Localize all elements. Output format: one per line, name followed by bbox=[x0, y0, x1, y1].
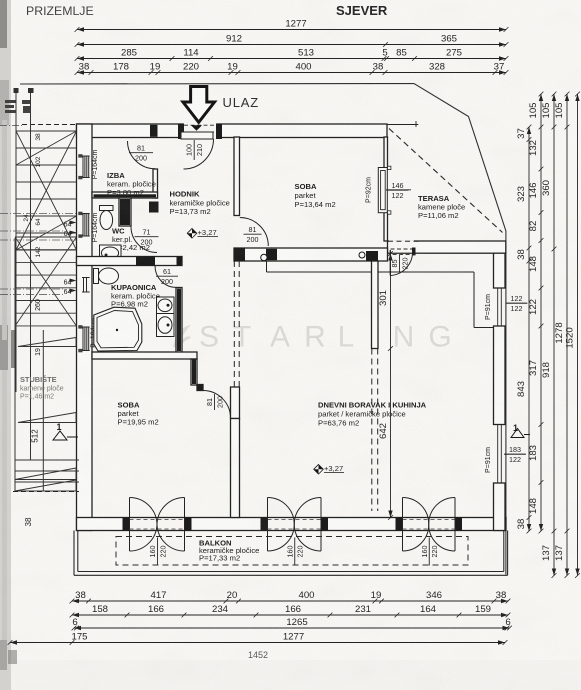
door label terasa door size 85/220 bbox=[390, 255, 409, 272]
stair diagonals middle bbox=[15, 237, 77, 326]
wall fill corridor west wall fill bbox=[192, 360, 196, 385]
wall north outer wall bbox=[77, 124, 388, 138]
door swing door corridor-soba 81/200 bbox=[203, 391, 231, 419]
stair treads upper flight bbox=[16, 131, 77, 250]
door swing izba door 81/200 bbox=[128, 141, 156, 169]
dimension chain top row 38.. bbox=[75, 70, 509, 75]
wall wall soba-living room bbox=[234, 248, 388, 261]
door/window label window size 146/122 bbox=[387, 181, 409, 200]
dimension chain right col D bbox=[565, 92, 570, 578]
door swing kupaonica door 61/200 bbox=[155, 266, 177, 288]
dimension chain right col B bbox=[539, 92, 544, 534]
leader line 64b bbox=[0, 288, 64, 290]
door/window label wc door size 71/200 bbox=[135, 228, 159, 247]
stair flight arrow 1 bbox=[18, 338, 76, 347]
dimension chain right col A bbox=[527, 125, 532, 534]
balcony door opening 1 bbox=[130, 519, 185, 530]
dashed hodnik-living right bbox=[238, 261, 240, 387]
door label door size 81/200 south soba bbox=[205, 394, 224, 410]
door label entrance door size 100/210 bbox=[185, 140, 204, 160]
wall kupaonica south wall bbox=[92, 352, 197, 359]
wall wc east wall bbox=[119, 198, 131, 226]
door/window label door size 81/200 soba bbox=[244, 225, 262, 244]
ULAZ arrow bbox=[183, 87, 215, 123]
dash-dot line top-left bbox=[0, 125, 22, 127]
wall fill corridor step fill bbox=[198, 385, 203, 390]
door label balcony door size 1 160/220 bbox=[148, 538, 167, 566]
wall kupaonica east wall bbox=[176, 288, 182, 353]
balcony outer edge bbox=[74, 531, 508, 576]
dimension chain top row 1277 bbox=[75, 27, 509, 32]
elevation mark +3,27 living bbox=[314, 464, 344, 474]
window label leader bbox=[386, 189, 411, 191]
door swing wc door 71/200 bbox=[131, 226, 157, 253]
door swing terasa door 85/220 bbox=[390, 251, 412, 276]
interior line step bbox=[266, 261, 268, 272]
stair diagonals upper bbox=[16, 131, 77, 250]
stair flight arrow 2 bbox=[18, 413, 76, 423]
eave tick bbox=[415, 121, 417, 127]
terasa door dashed sill box bbox=[391, 249, 414, 255]
elevation mark +3,27 hodnik bbox=[187, 228, 218, 238]
dashed hodnik-living left bbox=[233, 261, 235, 387]
balcony door opening 2 bbox=[268, 519, 322, 530]
wall fill wall stub below izba corner bbox=[149, 202, 159, 213]
kupaonica sink 1 bbox=[157, 297, 175, 314]
dimension chain bottom row 2 bbox=[70, 613, 511, 618]
wc toilet bbox=[100, 206, 114, 230]
dimension chain bottom row 4 bbox=[8, 640, 508, 645]
margin scan marks bbox=[5, 100, 31, 113]
terasa door dashed head bbox=[388, 240, 420, 242]
balcony dashed boundary bbox=[116, 537, 468, 566]
wall west outer wall bbox=[77, 124, 93, 531]
wall fill kupaonica north wall fill 2 bbox=[177, 257, 183, 266]
entrance swing direction triangle bbox=[191, 125, 202, 131]
section marker 1 right bbox=[511, 423, 530, 438]
wall fill wall fill east end bbox=[366, 251, 378, 261]
window east wall 122/122 bbox=[495, 288, 506, 326]
vent window left wall 64/64 bbox=[79, 278, 91, 293]
leader line window top bbox=[0, 213, 76, 215]
entrance opening bbox=[184, 123, 217, 138]
stair flight arrow 4 bbox=[15, 480, 76, 491]
wall soba east wall lower bbox=[384, 212, 388, 241]
wall fill wall band fill mid bbox=[266, 249, 277, 260]
north wall line extension bbox=[387, 124, 418, 126]
wall east wall above window 122 bbox=[494, 253, 506, 288]
window 183 leader bbox=[504, 453, 526, 455]
wall kupaonica north wall bbox=[77, 257, 183, 266]
wall fill wall fill west end bbox=[234, 248, 245, 261]
interior bay line horizontal bbox=[474, 327, 494, 329]
tick arrows 64 dims bbox=[70, 221, 77, 293]
door label balcony door size 2 160/220 bbox=[285, 538, 304, 566]
interior ceiling line bbox=[267, 271, 475, 273]
dimension chain right col C bbox=[552, 92, 557, 578]
door/window label kupaonica door size 61/200 bbox=[156, 267, 178, 286]
balcony door 2 swing arcs 160/220 bbox=[268, 498, 322, 552]
kupaonica bathtub bbox=[94, 307, 142, 351]
stair enclosure walls bbox=[15, 88, 43, 491]
wall terasa south wall bbox=[388, 241, 506, 253]
door/window label izba door size 81/200 bbox=[129, 144, 153, 163]
window east wall 183/122 bbox=[495, 425, 506, 484]
stair dash-dot line bbox=[0, 294, 64, 296]
dashed beam left bbox=[371, 349, 373, 512]
balcony door 1 swing arcs 160/220 bbox=[130, 498, 185, 552]
wall fill wc east wall fill bbox=[120, 199, 130, 225]
wall fill terasa door jamb bbox=[412, 248, 416, 256]
dashed beam right bbox=[377, 349, 379, 512]
wall corridor west wall bbox=[191, 359, 197, 385]
stair flight arrow 3 bbox=[15, 468, 76, 480]
roof overhang outline bbox=[20, 84, 506, 575]
kupaonica sink 2 bbox=[157, 314, 175, 337]
living NE inner face bbox=[493, 253, 495, 288]
interior bay line vertical bbox=[473, 272, 475, 328]
wall wall piece below door bbox=[231, 387, 240, 419]
window 122 leader bbox=[506, 302, 528, 304]
left scan margin band bbox=[0, 0, 11, 690]
wall fill north wall fill above izba door bbox=[150, 125, 158, 137]
terasa dashed boundary diagonal bbox=[389, 129, 503, 233]
dimension chain bottom row 1 bbox=[70, 599, 511, 604]
door swing door hodnik-soba 81/200 bbox=[240, 218, 268, 247]
section marker 1 left bbox=[53, 422, 78, 440]
wall fill entrance jamb right bbox=[216, 124, 222, 140]
wall south outer wall bbox=[77, 518, 507, 531]
wall fill entrance jamb left bbox=[178, 124, 184, 140]
stair treads lower flight bbox=[15, 460, 79, 482]
wall east wall below window 183 bbox=[494, 483, 506, 531]
dashed wall continuation top-left bbox=[22, 124, 79, 126]
balcony door 3 swing arcs 160/220 bbox=[403, 497, 456, 551]
kupaonica door opening bbox=[155, 258, 177, 265]
window left wall wc bbox=[78, 214, 92, 237]
terasa door opening bbox=[389, 240, 414, 252]
column marker circle 1 bbox=[261, 254, 267, 260]
wall soba east wall upper bbox=[384, 137, 388, 168]
wall east wall between windows bbox=[494, 326, 506, 425]
dimension chain top row 912/365 bbox=[75, 42, 509, 47]
door swing entrance door 100/210 bbox=[184, 139, 214, 169]
stair dashed landing line bbox=[13, 491, 79, 493]
entrance threshold dashed inner bbox=[184, 131, 216, 133]
window left wall izba bbox=[78, 156, 92, 178]
wall fill izba south wall fill bbox=[94, 194, 157, 197]
wall column stub wall bbox=[372, 261, 379, 349]
wall wall hodnik-soba bbox=[234, 137, 240, 216]
wall izba east wall below door bbox=[153, 169, 158, 198]
door label balcony door size 3 160/220 bbox=[420, 538, 439, 566]
wall wall soba-living south bbox=[231, 419, 240, 518]
kupaonica toilet bbox=[94, 268, 119, 284]
dimension chain interior 301/642 bbox=[388, 251, 393, 520]
scan noise overlay bbox=[0, 0, 1, 1]
window left wall kupaonica bbox=[78, 327, 92, 351]
entrance threshold dashed outer bbox=[184, 124, 216, 126]
stair wall end blobs bbox=[14, 88, 34, 93]
door/window label window size 122/122 bbox=[506, 294, 528, 313]
terasa door leaf bbox=[389, 250, 391, 276]
dimension chain bottom row 3 bbox=[72, 626, 512, 631]
dimension chain right col E bbox=[575, 92, 580, 578]
wall corridor wall step bbox=[197, 385, 203, 391]
balcony door opening 3 bbox=[403, 519, 456, 530]
wall fill kupaonica east wall fill bbox=[177, 289, 181, 352]
column marker circle 2 bbox=[359, 252, 365, 258]
stair treads middle flight bbox=[15, 237, 77, 326]
door/window label window size 183/122 bbox=[505, 445, 526, 464]
leader line 64 bbox=[0, 230, 64, 232]
wall entrance door sill box bbox=[181, 132, 213, 139]
wall fill kupaonica north wall fill bbox=[136, 257, 155, 266]
wc sink bbox=[100, 245, 122, 261]
window soba-terasa 146/122 bbox=[384, 168, 389, 213]
dimension chain top row 285.. bbox=[75, 56, 509, 61]
leader line window bottom bbox=[0, 239, 76, 241]
wall izba south wall bbox=[92, 192, 158, 198]
